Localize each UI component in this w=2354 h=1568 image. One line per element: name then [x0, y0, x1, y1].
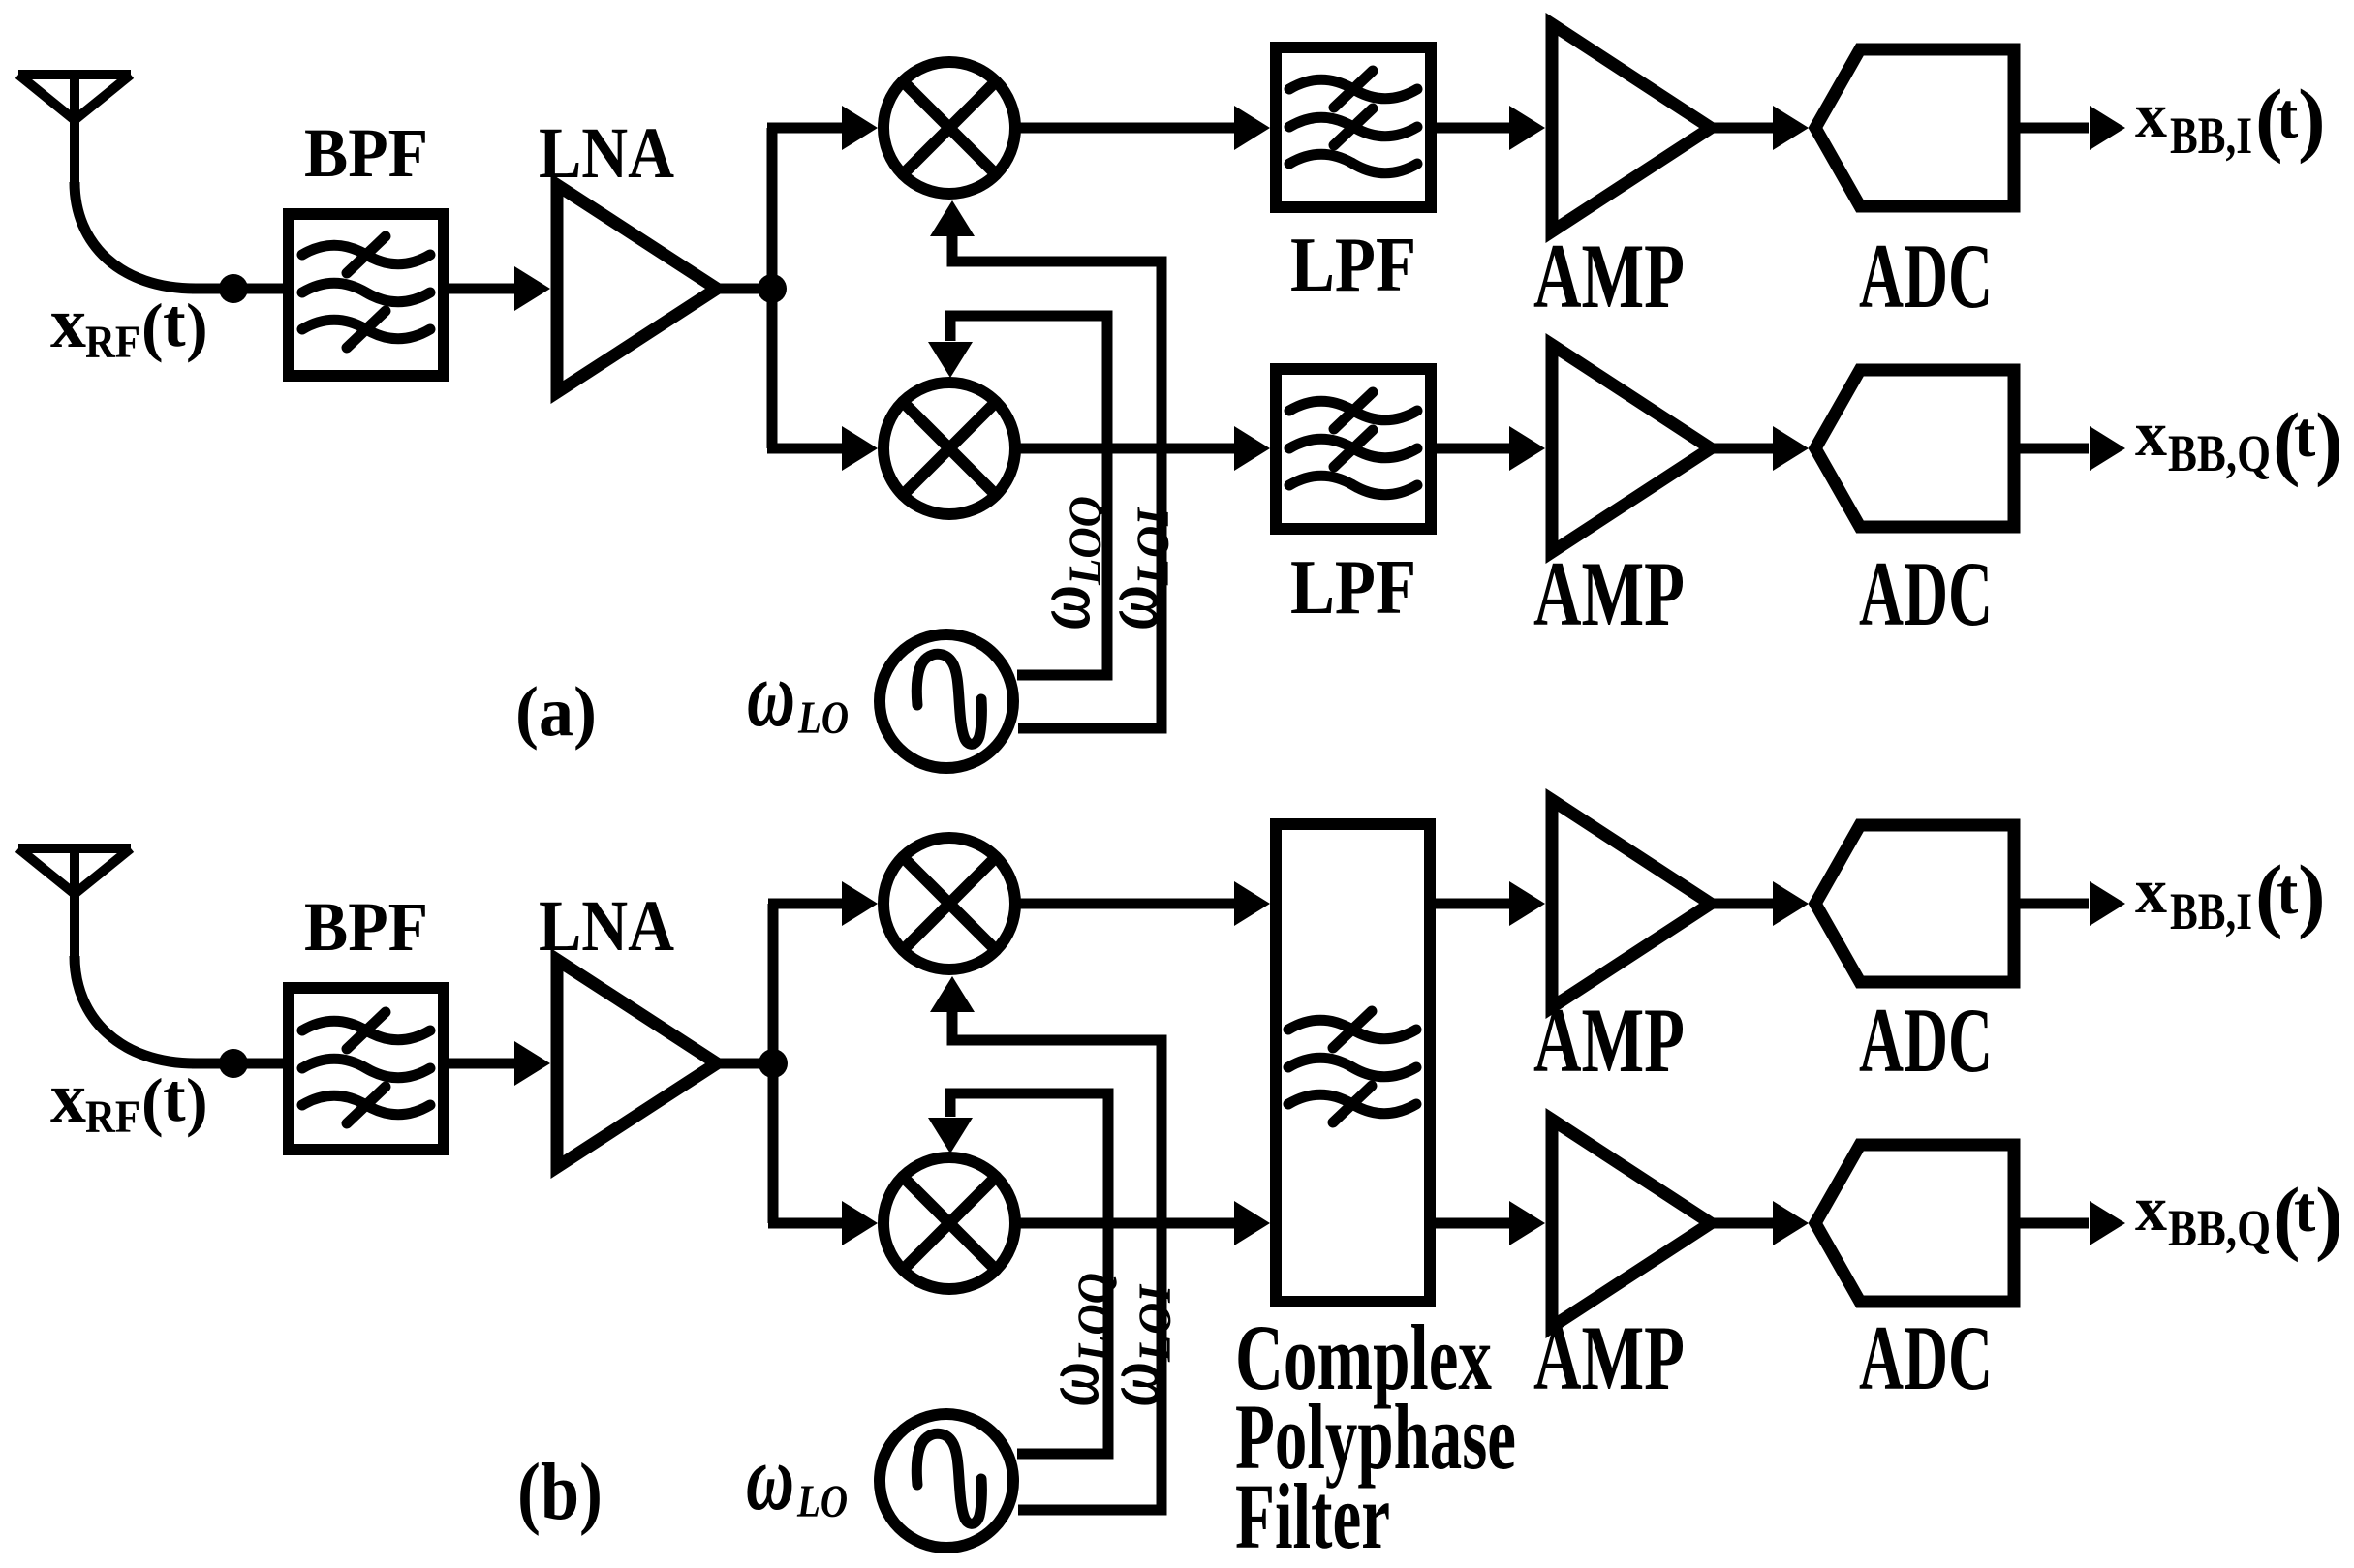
- oscillator LO (a): [880, 634, 1013, 768]
- wire ADC I output (b): [2016, 899, 2089, 909]
- svg-text:): ): [2298, 72, 2326, 165]
- wire LPF1 to AMP (a): [1435, 123, 1510, 134]
- node x_RF (a) junction dot: [219, 274, 248, 303]
- arrowhead into mixer Q (b): [842, 1201, 878, 1245]
- svg-text:x: x: [50, 284, 86, 363]
- node junction dot (a): [758, 274, 787, 303]
- arrowhead into polyphase filter Q (b): [1234, 1201, 1270, 1245]
- antenna ANT1: [18, 75, 131, 185]
- wire LO-Q feed to mixer M2 (a): [950, 316, 1107, 675]
- wire junction to mixer I (a): [767, 123, 842, 134]
- wire mixer I to LPF (a): [1019, 123, 1235, 134]
- mixer M2 (a, Q branch): [883, 383, 1015, 514]
- svg-text:x: x: [50, 1059, 86, 1138]
- svg-text:ADC: ADC: [1859, 1307, 1993, 1409]
- wire junction to mixer Q (b): [768, 1218, 842, 1229]
- wire junction to mixer Q (a): [767, 444, 842, 454]
- wire LNA to junction (a): [719, 284, 775, 294]
- low-pass filter LPF2 (a) box: [1276, 369, 1431, 529]
- svg-text:ω: ω: [746, 1426, 794, 1530]
- wire ADC Q output (b): [2016, 1218, 2089, 1229]
- svg-text:t: t: [2294, 399, 2316, 471]
- LPF2 (a) filter symbol: [1289, 392, 1417, 495]
- wire antenna to BPF (b): [192, 1059, 285, 1069]
- arrowhead into LPF I (a): [1234, 106, 1270, 150]
- svg-text:t: t: [2277, 856, 2299, 928]
- svg-text:LOQ: LOQ: [1060, 496, 1111, 586]
- arrowhead LO into mixer M2 top (b): [928, 1118, 973, 1153]
- wire LO-I feed to mixer M1 (a): [952, 236, 1162, 728]
- low-pass filter LPF1 (a) box: [1276, 47, 1431, 207]
- wire junction vertical (a): [767, 128, 778, 448]
- svg-text:AMP: AMP: [1533, 542, 1685, 645]
- arrowhead output Q (a): [2090, 426, 2125, 471]
- mixer M1 (b, I branch): [883, 838, 1015, 969]
- amplifier AMP (a, I branch): [1552, 24, 1711, 231]
- mixer M1 (a, I branch): [883, 62, 1015, 194]
- svg-text:BB,I: BB,I: [2170, 882, 2252, 940]
- svg-text:ω: ω: [1087, 1362, 1177, 1406]
- wire CPF to AMP Q (b): [1434, 1218, 1510, 1229]
- arrowhead into ADC Q (b): [1773, 1201, 1809, 1245]
- arrowhead into AMP I (a): [1509, 106, 1545, 150]
- svg-text:BPF: BPF: [304, 888, 428, 966]
- wire antenna feed curve (b): [75, 956, 196, 1063]
- wire mixer I to polyphase filter (b): [1019, 899, 1235, 909]
- arrowhead LO into mixer M2 top (a): [928, 342, 973, 378]
- wire AMP to ADC (b, I): [1713, 899, 1774, 909]
- svg-text:(: (: [141, 290, 164, 363]
- svg-text:(b): (b): [517, 1447, 603, 1537]
- svg-text:LNA: LNA: [539, 113, 674, 194]
- wire junction vertical (b): [768, 904, 779, 1223]
- svg-text:t: t: [163, 286, 186, 361]
- band-pass filter BPF (b) box: [289, 988, 444, 1150]
- arrowhead into LNA (a): [514, 266, 550, 311]
- arrowhead output I (b): [2090, 881, 2125, 926]
- wire LO-Q feed to mixer M2 (b): [950, 1093, 1108, 1454]
- svg-text:BB,Q: BB,Q: [2168, 1199, 2271, 1257]
- svg-text:AMP: AMP: [1533, 1307, 1685, 1409]
- amplifier AMP (a, Q branch): [1552, 345, 1711, 552]
- wire antenna feed curve (a): [75, 182, 196, 289]
- node x_RF (b) junction dot: [219, 1049, 248, 1078]
- converter ADC (b, I branch): [1815, 825, 2014, 982]
- svg-text:t: t: [163, 1061, 186, 1136]
- arrowhead into ADC Q (a): [1773, 426, 1809, 471]
- svg-text:): ): [2315, 395, 2343, 488]
- LPF1 (a) filter symbol: [1289, 71, 1417, 173]
- svg-text:): ): [2298, 847, 2326, 940]
- complex polyphase filter CPF box: [1276, 824, 1430, 1302]
- mixer M2 (b, Q branch): [883, 1157, 1015, 1289]
- arrowhead output Q (b): [2090, 1201, 2125, 1245]
- svg-text:x: x: [2135, 856, 2167, 927]
- svg-text:x: x: [2135, 80, 2167, 151]
- svg-text:BB,Q: BB,Q: [2168, 424, 2271, 482]
- converter ADC (a, I branch): [1815, 49, 2014, 206]
- svg-text:BB,I: BB,I: [2170, 107, 2252, 165]
- wire LO-I feed to mixer M1 (b): [952, 1012, 1162, 1510]
- antenna ANT2: [18, 848, 131, 959]
- svg-text:Filter: Filter: [1235, 1464, 1390, 1568]
- svg-text:LO: LO: [796, 1476, 848, 1527]
- wire ADC I output (a): [2016, 123, 2089, 134]
- svg-text:ADC: ADC: [1859, 542, 1993, 645]
- svg-text:(a): (a): [515, 672, 597, 751]
- svg-text:LNA: LNA: [539, 886, 674, 967]
- arrowhead into mixer I (b): [842, 881, 878, 926]
- converter ADC (a, Q branch): [1815, 370, 2014, 527]
- wire BPF to LNA (b): [448, 1059, 515, 1069]
- svg-text:RF: RF: [85, 1091, 140, 1143]
- arrowhead into polyphase filter I (b): [1234, 881, 1270, 926]
- svg-text:t: t: [2294, 1174, 2316, 1245]
- wire BPF to LNA (a): [448, 284, 515, 294]
- svg-text:): ): [186, 290, 208, 363]
- svg-text:(: (: [141, 1064, 164, 1138]
- BPF (b) filter symbol: [302, 1012, 430, 1123]
- svg-text:LPF: LPF: [1290, 223, 1416, 308]
- arrowhead into ADC I (a): [1773, 106, 1809, 150]
- svg-text:LOQ: LOQ: [1069, 1273, 1120, 1363]
- svg-text:t: t: [2277, 80, 2299, 152]
- wire AMP to ADC (a, I): [1713, 123, 1774, 134]
- band-pass filter BPF (a) box: [289, 214, 444, 376]
- oscillator LO (b): [880, 1414, 1013, 1548]
- svg-text:x: x: [2135, 1174, 2167, 1245]
- wire ADC Q output (a): [2016, 444, 2089, 454]
- converter ADC (b, Q branch): [1815, 1145, 2014, 1302]
- amplifier LNA (b): [557, 960, 717, 1167]
- wire LPF2 to AMP (a): [1435, 444, 1510, 454]
- arrowhead into LPF Q (a): [1234, 426, 1270, 471]
- arrowhead into AMP Q (b): [1509, 1201, 1545, 1245]
- arrowhead LO into mixer M1 bottom (b): [930, 976, 975, 1012]
- amplifier AMP (b, I branch): [1552, 800, 1711, 1007]
- svg-text:AMP: AMP: [1533, 989, 1685, 1091]
- arrowhead LO into mixer M1 bottom (a): [930, 200, 975, 236]
- svg-text:LOI: LOI: [1128, 507, 1179, 586]
- arrowhead into mixer I (a): [842, 106, 878, 150]
- amplifier LNA (a): [557, 185, 717, 392]
- node junction dot (b): [759, 1049, 788, 1078]
- arrowhead into AMP Q (a): [1509, 426, 1545, 471]
- svg-text:AMP: AMP: [1533, 225, 1685, 327]
- wire mixer Q to polyphase filter (b): [1019, 1218, 1235, 1229]
- wire LNA to junction (b): [719, 1059, 776, 1069]
- wire mixer Q to LPF (a): [1019, 444, 1235, 454]
- arrowhead into ADC I (b): [1773, 881, 1809, 926]
- svg-text:RF: RF: [85, 317, 140, 368]
- amplifier AMP (b, Q branch): [1552, 1120, 1711, 1327]
- arrowhead into mixer Q (a): [842, 426, 878, 471]
- CPF filter symbol: [1288, 1011, 1416, 1122]
- arrowhead into LNA (b): [514, 1041, 550, 1086]
- wire CPF to AMP I (b): [1434, 899, 1510, 909]
- BPF (a) filter symbol: [302, 236, 430, 348]
- wire antenna to BPF (a): [192, 284, 285, 294]
- svg-text:LPF: LPF: [1290, 545, 1416, 630]
- wire junction to mixer I (b): [768, 899, 842, 909]
- svg-text:ω: ω: [747, 642, 795, 747]
- svg-text:LO: LO: [797, 692, 849, 744]
- wire AMP to ADC (a, Q): [1713, 444, 1774, 454]
- svg-text:ADC: ADC: [1859, 225, 1993, 327]
- svg-text:ADC: ADC: [1859, 989, 1993, 1091]
- svg-text:LOI: LOI: [1130, 1283, 1181, 1363]
- svg-text:x: x: [2135, 399, 2167, 470]
- svg-text:BPF: BPF: [304, 114, 428, 192]
- arrowhead into AMP I (b): [1509, 881, 1545, 926]
- svg-text:): ): [186, 1064, 208, 1138]
- svg-text:): ): [2315, 1170, 2343, 1263]
- svg-text:ω: ω: [1085, 585, 1175, 630]
- arrowhead output I (a): [2090, 106, 2125, 150]
- wire AMP to ADC (b, Q): [1713, 1218, 1774, 1229]
